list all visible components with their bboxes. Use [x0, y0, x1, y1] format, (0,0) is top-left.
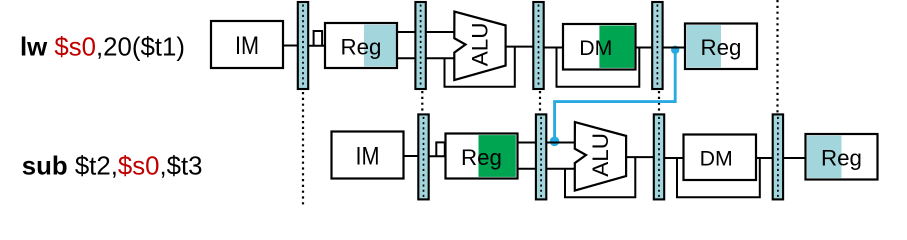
EX/MEM pipeline register (lw): [533, 2, 543, 89]
instruction memory IM (sub): [332, 132, 404, 179]
svg-text:Reg: Reg: [701, 35, 742, 60]
instruction memory IM (lw): [211, 21, 283, 68]
cycle boundary dotted line above MEM/WB of sub: [776, 0, 778, 114]
svg-text:sub $t2,$s0,$t3: sub $t2,$s0,$t3: [22, 152, 203, 180]
data memory DM (sub): [684, 135, 757, 181]
svg-text:Reg: Reg: [341, 34, 382, 59]
bypass wire around DM (lw): [557, 48, 640, 87]
IF/ID pipeline register (sub): [418, 114, 428, 199]
bypass wire around ALU (lw): [445, 47, 515, 87]
register file Reg writeback (sub): [806, 134, 878, 180]
MEM/WB pipeline register (lw): [652, 2, 662, 89]
wire DM to MEM/WB register (lw): [636, 47, 654, 49]
wire MEM/WB to Reg writeback (lw): [663, 47, 686, 49]
bypass wire around DM (sub): [677, 158, 760, 197]
svg-text:ALU: ALU: [588, 133, 613, 177]
wire Reg lower output to ID/EX register (lw): [397, 57, 416, 59]
svg-text:ALU: ALU: [468, 23, 493, 67]
ID/EX pipeline register (sub): [536, 114, 546, 199]
register file Reg read (lw): [325, 23, 397, 68]
cycle boundary dotted line below IF/ID of lw: [302, 92, 304, 205]
wire ID/EX to ALU upper input (sub): [546, 142, 576, 144]
register file Reg writeback (lw): [685, 24, 757, 70]
wire Reg upper output to ID/EX register (sub): [518, 142, 537, 144]
wire ID/EX to ALU upper input (lw): [426, 31, 456, 33]
cycle boundary dotted segment between rows col3: [539, 91, 541, 114]
wire ID/EX to ALU lower input (sub): [546, 168, 576, 170]
wire DM to MEM/WB register (sub): [756, 157, 774, 159]
wire MEM/WB to Reg writeback (sub): [783, 157, 806, 159]
svg-text:lw $s0,20($t1): lw $s0,20($t1): [20, 34, 185, 62]
wire ALU output to EX/MEM register (sub): [626, 156, 655, 158]
svg-text:DM: DM: [579, 36, 612, 60]
clock notch on Reg input wire (sub): [436, 142, 445, 156]
data memory DM (lw): [563, 24, 636, 70]
clock notch on Reg input wire (lw): [314, 31, 323, 46]
wire Reg upper output to ID/EX register (lw): [397, 31, 416, 33]
forwarding junction node on lw writeback wire: [671, 46, 679, 54]
svg-text:Reg: Reg: [821, 146, 862, 171]
wire IM to IF/ID pipeline register (lw): [283, 45, 299, 47]
wire EX/MEM to DM (lw): [544, 47, 564, 49]
svg-text:IM: IM: [355, 142, 379, 170]
EX/MEM pipeline register (sub): [654, 114, 664, 199]
wire Reg lower output to ID/EX register (sub): [518, 168, 537, 170]
IF/ID pipeline register (lw): [298, 2, 308, 89]
bypass wire around ALU (sub): [565, 157, 635, 197]
wire IF/ID to Reg (lw): [308, 45, 326, 47]
MEM/WB pipeline register (sub): [773, 114, 783, 199]
svg-text:DM: DM: [700, 147, 733, 171]
svg-text:IM: IM: [235, 32, 259, 60]
wire EX/MEM to DM (sub): [664, 157, 684, 159]
ID/EX pipeline register (lw): [415, 2, 425, 89]
ALU (sub): [575, 122, 626, 191]
svg-text:Reg: Reg: [461, 145, 502, 170]
wire ALU output to EX/MEM register (lw): [505, 46, 534, 48]
wire IF/ID to Reg (sub): [429, 155, 447, 157]
cycle boundary dotted segment between rows col2: [421, 91, 423, 114]
forwarding wire from lw MEM/WB to sub ALU input: [555, 47, 676, 142]
forwarding junction node on sub ALU input wire: [550, 137, 560, 147]
wire ID/EX to ALU lower input (lw): [426, 57, 456, 59]
wire IM to IF/ID pipeline register (sub): [404, 155, 420, 157]
register file Reg read (sub): [446, 134, 518, 179]
cycle boundary dotted segment between rows col4: [658, 91, 660, 114]
ALU (lw): [454, 12, 505, 81]
